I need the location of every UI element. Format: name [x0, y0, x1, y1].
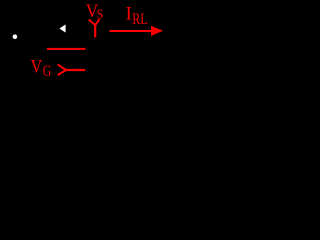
node A (input terminal dot)	[13, 34, 18, 39]
svg-text:S: S	[97, 7, 104, 22]
svg-text:I: I	[126, 4, 132, 24]
transistor Q1 gate arrowhead	[59, 24, 65, 32]
svg-text:RL: RL	[132, 11, 147, 28]
current arrow IRL	[110, 26, 164, 36]
voltage arrow VS	[89, 19, 100, 37]
voltage arrow VG	[58, 64, 86, 75]
svg-text:V: V	[31, 56, 43, 77]
svg-text:G: G	[43, 63, 52, 80]
wire (highlighted drain segment)	[47, 48, 86, 50]
